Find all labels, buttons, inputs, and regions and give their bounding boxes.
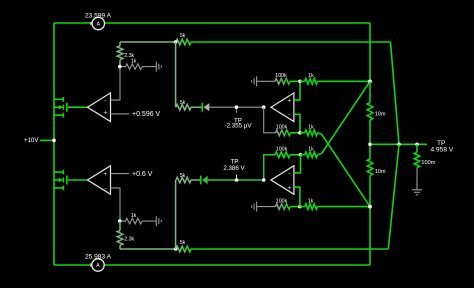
junction: row A: [298, 80, 302, 84]
resistor 1k (row D): [300, 198, 370, 209]
svg-text:5k: 5k: [180, 33, 186, 39]
labeled node +0.6 V (OA4 + input): [111, 171, 153, 178]
svg-text:A: A: [97, 22, 101, 28]
resistor 100k (row A): [275, 73, 300, 84]
svg-text:-: -: [104, 185, 106, 192]
svg-text:100k: 100k: [276, 125, 288, 131]
wire: bottom-right vertical from bottom rail to node N2: [369, 207, 371, 265]
labeled node +0.596 V (OA1 + input): [111, 111, 161, 118]
svg-text:5k: 5k: [180, 240, 186, 246]
svg-text:+: +: [287, 97, 291, 104]
resistor 2.3k (top): [117, 42, 134, 67]
junction: rail2 tap: [174, 40, 178, 44]
ammeter A1 (23.599 A): [85, 13, 112, 30]
ammeter A2 (25.983 A): [85, 254, 112, 272]
resistor 1k (row A): [300, 73, 370, 84]
op-amp OA3 (middle bottom, points left): [262, 166, 294, 195]
svg-text:-: -: [288, 170, 290, 177]
wire: OA3 - input elbow up to row C: [294, 155, 301, 173]
test point TP2 (2.386 V): [223, 159, 245, 182]
junction: row D: [298, 205, 302, 209]
svg-text:100k: 100k: [276, 198, 288, 204]
resistor 5k #3: [176, 240, 191, 252]
svg-text:10m: 10m: [375, 111, 386, 117]
wire: row B diagonal down to node N2: [318, 133, 371, 207]
svg-text:+: +: [103, 109, 107, 116]
resistor 10m (upper sense): [367, 81, 386, 144]
svg-text:+: +: [287, 185, 291, 192]
svg-text:1k: 1k: [308, 147, 314, 153]
wire: +10V left supply rail (vertical): [53, 23, 55, 265]
wire: slanted from rail2 down to output node: [391, 42, 400, 144]
wire: rail2 from 2.3k top to 5k1: [120, 41, 176, 43]
diode D1 (top, cathode left): [191, 103, 209, 112]
resistor 100k (row D): [276, 198, 300, 209]
wire: D1 to OA2 output node: [209, 106, 263, 108]
wire: OA2 + input elbow up to row A: [294, 81, 300, 100]
svg-text:2.386 V: 2.386 V: [223, 165, 245, 172]
wire: OA2 output feedback elbow down to row B: [264, 107, 276, 133]
resistor 100k (row C): [275, 147, 301, 158]
svg-text:5k: 5k: [180, 173, 186, 179]
wire: OA3 + input elbow down to row D: [294, 187, 300, 207]
svg-text:4.958 V: 4.958 V: [431, 146, 454, 153]
wire: slanted from rail2' up to output node: [388, 144, 399, 249]
resistor 5k #2: [176, 100, 191, 110]
wire: OA2 - input elbow down to row B: [294, 114, 300, 133]
junction: rail2' tap: [174, 247, 178, 251]
svg-text:1k: 1k: [308, 73, 314, 79]
resistor 5k #4: [176, 173, 191, 183]
junction: OA1 feedback node: [118, 65, 122, 69]
labeled node TP 4.958 V: [431, 140, 454, 153]
wire: vertical x=175.6 rail2 down to 5k2 row: [175, 42, 177, 107]
resistor 1k (OA1 feedback to ground): [120, 58, 156, 69]
node N1 junction: [368, 80, 372, 84]
wire: rail2 to right corner: [191, 41, 391, 43]
resistor 100k (row B): [276, 125, 300, 136]
ground (below 100m): [412, 190, 422, 195]
wire: rail2' to right corner: [191, 248, 388, 250]
resistor 1k (row C): [301, 147, 318, 158]
svg-text:1k: 1k: [308, 125, 314, 131]
wire: OA4 inverting input elbow down to feedback node: [111, 188, 121, 221]
wire: OA1 inverting input elbow up to feedback node: [111, 67, 121, 101]
ground (row A left): [252, 76, 275, 86]
resistor 10m (lower sense): [367, 144, 386, 206]
op-amp OA2 (middle top, points left): [262, 93, 294, 122]
ground (row D left): [252, 202, 276, 212]
transistor M1 (upper MOSFET): [53, 97, 67, 118]
svg-text:+10V: +10V: [24, 137, 39, 144]
diode D2 (bottom, cathode left): [191, 176, 208, 185]
wire: M2 gate to op-amp OA4 output: [68, 179, 88, 181]
svg-text:25.983 A: 25.983 A: [85, 254, 112, 261]
op-amp OA4 (left bottom, points left): [88, 166, 111, 195]
wire: bottom rail: [54, 264, 370, 266]
labeled node +10V: [24, 137, 56, 144]
resistor 1k (row B): [300, 125, 318, 136]
svg-text:10m: 10m: [375, 169, 386, 175]
wire: top-right vertical from top rail to node N1: [369, 23, 371, 81]
resistor 100m (load): [414, 144, 436, 190]
wire: vertical x=175.6 rail2' up to 5k4 row: [175, 180, 177, 249]
svg-text:-2.355 µV: -2.355 µV: [225, 122, 253, 129]
wire: rail2' from 2.3k bottom to 5k3: [120, 248, 176, 250]
svg-text:23.599 A: 23.599 A: [85, 13, 112, 20]
svg-text:1k: 1k: [131, 58, 137, 64]
svg-text:+: +: [103, 171, 107, 178]
svg-text:1k: 1k: [308, 198, 314, 204]
junction: OA4 feedback node: [118, 219, 122, 223]
wire: M1 gate to op-amp OA1 output: [68, 106, 88, 108]
svg-text:2.3k: 2.3k: [124, 237, 134, 243]
svg-text:+0.596 V: +0.596 V: [132, 111, 161, 118]
svg-text:-: -: [104, 97, 106, 104]
svg-text:100k: 100k: [275, 73, 287, 79]
ground (right of bottom 1k): [156, 216, 161, 226]
resistor 1k (OA4 feedback to ground): [120, 213, 156, 224]
wire: D2 to OA3 output node: [208, 179, 264, 181]
wire: top rail: [54, 22, 370, 24]
svg-text:-: -: [288, 111, 290, 118]
wire: row C diagonal up to node N1: [318, 81, 371, 154]
junction: row B: [298, 131, 302, 135]
svg-text:A: A: [96, 263, 100, 269]
node N2 junction: [368, 205, 372, 209]
wire: OA3 output elbow up to row C: [264, 155, 275, 180]
test point TP1 (-2.355 uV): [225, 105, 253, 129]
resistor 5k #1: [176, 33, 191, 45]
op-amp OA1 (left top, points left): [88, 93, 111, 122]
svg-text:100k: 100k: [276, 147, 288, 153]
svg-text:5k: 5k: [180, 100, 186, 106]
svg-text:+0.6 V: +0.6 V: [132, 171, 153, 178]
svg-text:100m: 100m: [421, 160, 435, 166]
svg-text:1k: 1k: [131, 213, 137, 219]
transistor M2 (lower MOSFET): [53, 170, 67, 191]
wire: output row (TP 4.958 V): [370, 143, 427, 145]
resistor 2.3k (bottom): [117, 221, 134, 249]
junction: row C: [299, 153, 303, 157]
ground (right of top 1k): [156, 62, 161, 72]
